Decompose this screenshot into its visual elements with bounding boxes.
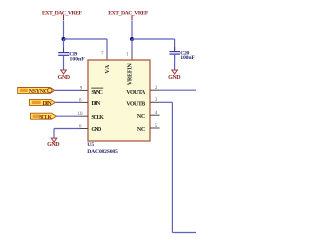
pin 5 NC xyxy=(150,127,160,129)
ground xyxy=(58,70,71,81)
capacitor C20 xyxy=(169,47,195,61)
svg-text:VOUTA: VOUTA xyxy=(126,89,146,96)
power port EXT_DAC_VREF (right) xyxy=(108,11,149,21)
svg-text:U5: U5 xyxy=(87,142,94,148)
wire xyxy=(54,128,80,130)
pin 7 VA xyxy=(106,53,108,61)
wire xyxy=(55,101,79,103)
pin name SYNC with overline xyxy=(91,88,103,96)
svg-text:GND: GND xyxy=(168,75,181,81)
pin 3 VOUTB xyxy=(150,101,160,103)
svg-text:NSYNC: NSYNC xyxy=(29,89,48,95)
pin 2 VOUTA xyxy=(150,89,160,91)
svg-text:DAC082S085: DAC082S085 xyxy=(87,149,118,155)
svg-text:1: 1 xyxy=(126,52,129,57)
svg-text:GND: GND xyxy=(58,75,71,81)
power port EXT_DAC_VREF (left) xyxy=(42,10,83,20)
wire xyxy=(172,232,196,234)
pin 9 SYNC xyxy=(80,89,89,91)
svg-text:NC: NC xyxy=(137,113,146,120)
wire xyxy=(131,21,133,39)
svg-text:100nF: 100nF xyxy=(70,57,86,63)
svg-text:SCLK: SCLK xyxy=(39,115,52,121)
svg-text:GND: GND xyxy=(47,142,60,148)
svg-text:VREFIN: VREFIN xyxy=(127,63,134,86)
wire xyxy=(174,54,176,70)
capacitor C19 xyxy=(58,48,85,63)
svg-text:DIN: DIN xyxy=(91,100,101,107)
pin 10 SCLK xyxy=(80,115,89,117)
wire xyxy=(63,55,65,70)
IC U5 DAC082S085 xyxy=(87,60,150,155)
svg-text:EXT_DAC_VREF: EXT_DAC_VREF xyxy=(42,10,83,16)
svg-text:VA: VA xyxy=(104,64,111,73)
port DIN xyxy=(30,99,56,107)
wire xyxy=(57,115,80,117)
wire xyxy=(160,89,196,91)
wire xyxy=(55,89,80,91)
pin 6 GND xyxy=(80,128,89,130)
svg-text:VOUTB: VOUTB xyxy=(126,100,145,107)
pin 8 DIN xyxy=(80,101,89,103)
ground xyxy=(168,70,181,81)
ground xyxy=(47,138,60,148)
wire xyxy=(131,39,133,53)
node junction xyxy=(62,37,66,41)
wire xyxy=(160,101,173,103)
wire xyxy=(63,39,65,52)
svg-text:100nF: 100nF xyxy=(180,55,195,61)
wire xyxy=(64,38,108,40)
svg-text:SYNC: SYNC xyxy=(91,89,103,96)
svg-text:DIN: DIN xyxy=(43,101,53,107)
svg-text:NC: NC xyxy=(137,126,146,133)
pin 4 NC xyxy=(150,114,160,116)
svg-text:SCLK: SCLK xyxy=(91,114,104,121)
pin 1 VREFIN xyxy=(131,53,133,61)
wire xyxy=(174,39,176,51)
wire xyxy=(171,102,173,232)
wire xyxy=(132,38,175,40)
svg-text:GND: GND xyxy=(91,126,102,133)
port NSYNC xyxy=(18,88,55,96)
svg-text:7: 7 xyxy=(101,52,104,57)
port SCLK xyxy=(31,113,57,121)
svg-text:EXT_DAC_VREF: EXT_DAC_VREF xyxy=(108,11,149,17)
wire xyxy=(63,21,65,40)
node junction xyxy=(130,37,134,41)
wire xyxy=(106,39,108,53)
wire xyxy=(53,129,55,139)
